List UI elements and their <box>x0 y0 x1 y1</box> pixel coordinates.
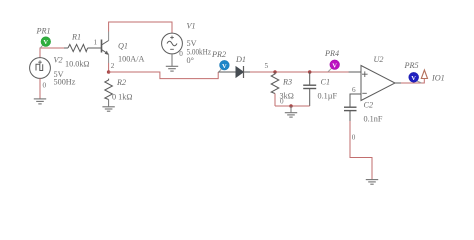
svg-text:Q1: Q1 <box>118 42 128 51</box>
connector IO1 <box>421 70 427 79</box>
svg-text:0: 0 <box>352 134 356 142</box>
bottom junction <box>289 104 293 108</box>
diode D1 <box>218 66 250 78</box>
capacitor C2 <box>344 107 357 121</box>
svg-text:C2: C2 <box>364 101 374 110</box>
svg-text:10.0kΩ: 10.0kΩ <box>65 60 90 69</box>
svg-text:V1: V1 <box>187 22 196 31</box>
svg-text:0: 0 <box>280 98 284 106</box>
wire diode to op-amp <box>250 71 361 73</box>
source V1 <box>162 33 183 54</box>
svg-text:5: 5 <box>265 62 269 70</box>
wire node 2 to diode <box>109 72 219 79</box>
collector pin <box>108 32 110 42</box>
wire collector to V1 <box>109 22 172 33</box>
wire bottom R3 to C1 <box>275 105 310 107</box>
svg-text:IO1: IO1 <box>431 74 445 83</box>
svg-text:0.1µF: 0.1µF <box>318 92 338 101</box>
resistor R1 <box>64 44 101 51</box>
svg-text:R1: R1 <box>71 33 81 42</box>
wire output to IO1 <box>401 79 424 83</box>
svg-text:0.1nF: 0.1nF <box>364 115 383 124</box>
wire V2 bottom to ground <box>39 78 41 98</box>
svg-text:0: 0 <box>43 82 47 90</box>
probe PR1 <box>40 37 51 49</box>
svg-text:0°: 0° <box>187 56 194 65</box>
capacitor C1 <box>303 72 316 106</box>
wire emitter to node 2 <box>108 63 110 72</box>
svg-text:V2: V2 <box>54 56 63 65</box>
junction C1 top <box>308 70 312 74</box>
ground stem <box>290 106 292 112</box>
resistor R2 <box>105 79 113 100</box>
wire R3 bottom <box>274 94 276 107</box>
svg-text:2: 2 <box>111 62 115 70</box>
ground below V2 <box>34 99 46 104</box>
svg-text:D1: D1 <box>235 55 246 64</box>
svg-text:V: V <box>332 62 337 69</box>
svg-text:100A/A: 100A/A <box>118 55 144 64</box>
op-amp U2 <box>349 66 395 101</box>
V1 bottom stem <box>171 54 173 66</box>
op-amp output pin <box>395 82 401 84</box>
svg-text:V: V <box>43 39 48 46</box>
wire V2 top to R1 <box>40 48 64 58</box>
emitter pin <box>108 54 110 63</box>
svg-text:U2: U2 <box>374 55 384 64</box>
op-amp inverting input wire <box>350 94 361 107</box>
svg-text:0: 0 <box>179 50 183 58</box>
node 2 junction <box>107 70 111 74</box>
ground below V1 <box>166 66 178 71</box>
svg-text:R3: R3 <box>282 78 292 87</box>
svg-text:500Hz: 500Hz <box>54 77 76 86</box>
svg-text:PR2: PR2 <box>211 50 226 59</box>
svg-text:V: V <box>411 75 416 82</box>
probe PR4 <box>328 60 340 72</box>
svg-text:V: V <box>222 63 227 70</box>
ground below R3/C1 <box>285 113 297 117</box>
source V2 <box>30 58 51 79</box>
resistor R3 <box>271 72 279 94</box>
ground below C2 wire <box>366 180 378 185</box>
transistor Q1 <box>102 40 109 55</box>
svg-text:R2: R2 <box>116 78 126 87</box>
svg-text:PR4: PR4 <box>324 49 339 58</box>
probe PR5 <box>409 72 422 83</box>
svg-text:0 1kΩ: 0 1kΩ <box>112 93 132 102</box>
wire C2 to ground <box>350 121 372 179</box>
node 5 junction <box>273 70 277 74</box>
probe PR2 <box>219 60 229 71</box>
svg-text:6: 6 <box>352 86 356 94</box>
ground below R2 <box>102 107 114 111</box>
svg-text:PR1: PR1 <box>36 27 51 36</box>
R2 bottom stem <box>108 100 110 107</box>
svg-text:C1: C1 <box>321 78 331 87</box>
svg-text:PR5: PR5 <box>404 61 419 70</box>
svg-text:1: 1 <box>94 39 98 47</box>
